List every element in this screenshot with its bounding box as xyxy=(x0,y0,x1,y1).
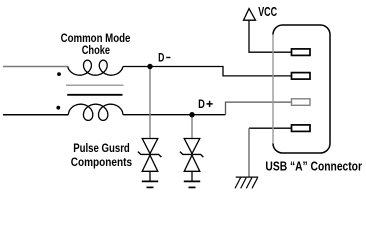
svg-text:D: D xyxy=(198,98,205,111)
svg-text:Choke: Choke xyxy=(82,44,110,57)
svg-text:VCC: VCC xyxy=(258,5,277,19)
svg-text:Components: Components xyxy=(71,156,132,169)
svg-text:USB “A” Connector: USB “A” Connector xyxy=(265,159,362,173)
svg-text:Pulse Gusrd: Pulse Gusrd xyxy=(73,142,130,155)
svg-text:D: D xyxy=(158,53,165,66)
